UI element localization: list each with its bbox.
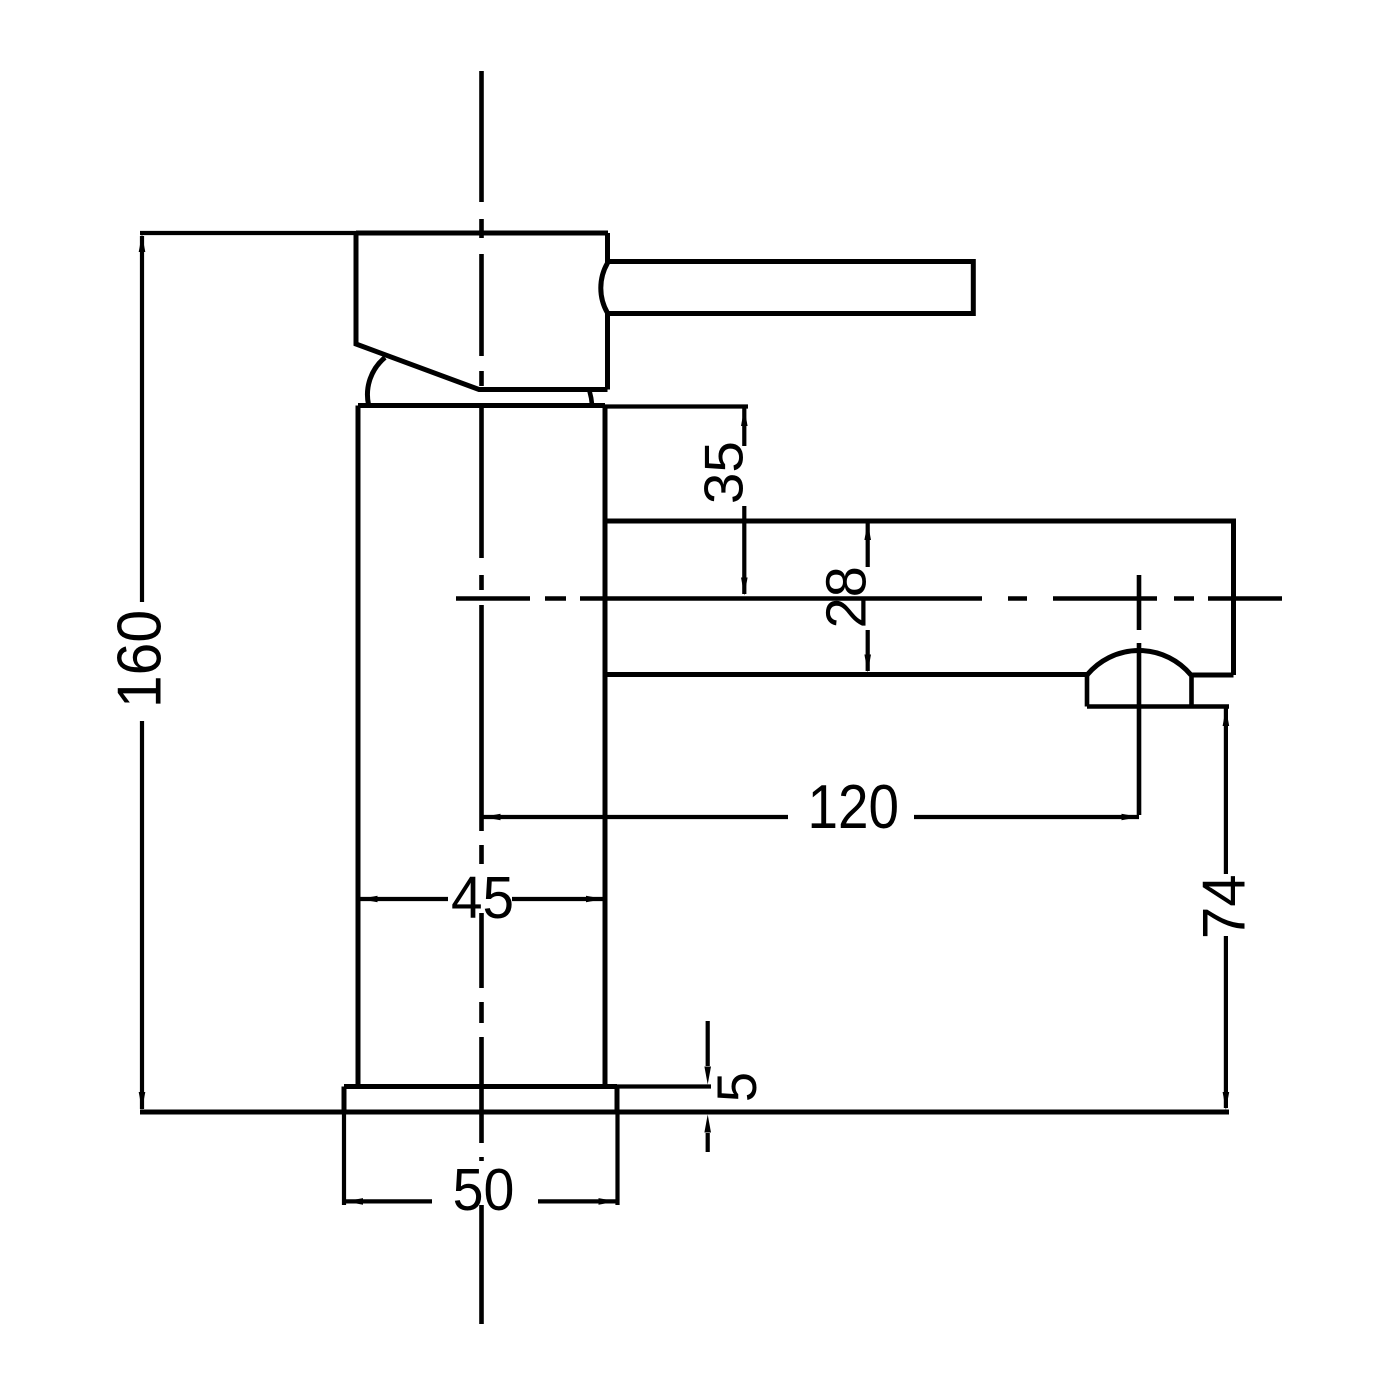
- svg-text:35: 35: [692, 441, 754, 504]
- svg-text:74: 74: [1190, 874, 1258, 939]
- svg-text:50: 50: [453, 1157, 515, 1223]
- plate top extension for dim 5: [617, 1084, 711, 1088]
- dim 160 : vertical line: [140, 236, 144, 1109]
- main vertical centerline: [479, 71, 484, 1324]
- base plate: [344, 1087, 617, 1112]
- dim 45 : horizontal line: [360, 897, 604, 901]
- svg-text:120: 120: [808, 773, 900, 842]
- spout: [605, 521, 1234, 675]
- aerator housing: [1087, 675, 1229, 707]
- dim 74 : vertical line: [1224, 708, 1228, 1108]
- svg-text:160: 160: [104, 610, 174, 708]
- aerator dome arc: [1087, 650, 1191, 675]
- dim 50 : horizontal line: [344, 1111, 618, 1205]
- dim 35 : vertical line: [742, 408, 746, 594]
- handle body: [356, 233, 608, 390]
- body column: [358, 406, 605, 1087]
- svg-text:5: 5: [705, 1072, 768, 1102]
- cartridge dome arc left: [367, 358, 385, 405]
- dim 28 : vertical line: [866, 522, 870, 671]
- dim 5 : vertical line: [706, 1021, 710, 1152]
- handle right edge with lever notch arc: [601, 233, 608, 390]
- cartridge dome fillet right: [590, 391, 593, 405]
- lever bar: [608, 262, 973, 314]
- ground baseline: [140, 1110, 1229, 1115]
- dim 160 : top connector line: [140, 231, 356, 235]
- spout horizontal centerline: [456, 596, 1282, 601]
- svg-text:45: 45: [451, 866, 514, 931]
- dim 35 : extension line: [605, 404, 748, 408]
- aerator axis centerline: [1137, 575, 1142, 815]
- dim 120 : horizontal line: [483, 815, 1140, 819]
- svg-text:28: 28: [814, 566, 878, 628]
